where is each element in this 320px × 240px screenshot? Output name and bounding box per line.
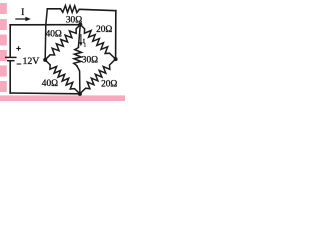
wire: middle resistor down to node B	[77, 66, 80, 94]
resistor 20ohm upper-right diagonal (T to R)	[80, 25, 115, 60]
svg-text:20Ω: 20Ω	[101, 79, 117, 89]
resistor 20ohm lower-right diagonal (B to R)	[80, 59, 116, 94]
resistor 30ohm middle vertical zigzag	[74, 47, 82, 66]
svg-text:1: 1	[84, 43, 87, 48]
svg-text:40Ω: 40Ω	[46, 30, 62, 40]
wire: top branch left segment	[47, 8, 60, 10]
battery long plate (+)	[6, 56, 16, 58]
wire: top branch right segment	[80, 9, 116, 10]
pink dashed highlight: bottom bar	[0, 95, 125, 101]
resistor 30ohm top zigzag	[60, 6, 79, 13]
node T junction dot	[78, 23, 82, 27]
wire: top-left corner + left vertical to battery top plate	[9, 25, 11, 57]
svg-text:40Ω: 40Ω	[42, 79, 58, 89]
node R junction dot	[114, 57, 118, 61]
wire: left vertical below battery	[9, 61, 11, 93]
current arrow I1	[80, 35, 82, 44]
resistor 40ohm lower-left diagonal (L to B)	[45, 60, 80, 94]
node L junction dot	[43, 58, 47, 62]
wire: right vertical down to node R	[115, 11, 117, 59]
battery minus sign	[17, 63, 21, 65]
wire: branch vertical (top-30ohm feed) crossing top wire, down to node L	[45, 9, 47, 59]
wire: bottom return wire	[10, 92, 80, 95]
battery plus sign	[17, 48, 20, 50]
svg-text:30Ω: 30Ω	[82, 56, 98, 66]
battery short plate (-)	[8, 60, 14, 62]
wire: top wire from corner to node T	[10, 24, 79, 26]
svg-text:I: I	[21, 7, 24, 17]
pink dashed highlight: left edge dashes	[0, 3, 7, 14]
current arrow I	[16, 18, 27, 20]
wire: node T down to middle resistor	[78, 25, 80, 48]
node B junction dot	[78, 92, 82, 96]
svg-text:20Ω: 20Ω	[96, 25, 112, 35]
resistor 40ohm upper-left diagonal (L to T)	[45, 25, 80, 60]
svg-text:12V: 12V	[23, 56, 40, 67]
